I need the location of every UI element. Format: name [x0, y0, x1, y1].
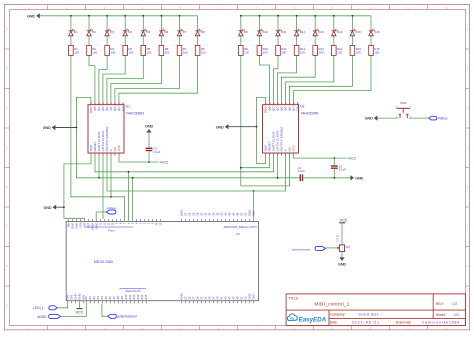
svg-text:OUTPUT ENABLE: OUTPUT ENABLE: [280, 126, 284, 151]
svg-text:VCC: VCC: [76, 311, 84, 315]
wire column D2: [88, 16, 90, 31]
junction G2: [76, 127, 78, 129]
wire fan D2 to U1: [89, 55, 95, 102]
resistor R1 100: [69, 45, 80, 55]
svg-text:0.1uF: 0.1uF: [153, 150, 160, 154]
wire bus row F (U1-U2): [107, 155, 286, 191]
LED D4: [123, 29, 132, 36]
wire row F drop to Arduino pin: [253, 191, 255, 219]
svg-text:100: 100: [281, 50, 286, 54]
svg-text:AGND: AGND: [37, 315, 47, 319]
wire LED(-) to Arduino: [57, 303, 67, 308]
svg-text:10K: 10K: [336, 234, 340, 242]
wire bus row D left part: [77, 177, 300, 179]
svg-text:6: 6: [111, 103, 112, 105]
wire row B U2 RESET to D9 vertical: [241, 155, 270, 167]
resistor R10 100: [257, 45, 268, 55]
svg-text:8: 8: [294, 103, 295, 105]
svg-text:5V0: 5V0: [252, 210, 256, 215]
svg-text:100: 100: [319, 50, 324, 54]
svg-text:Company:: Company:: [330, 313, 346, 317]
wire D1 column long run to Arduino: [71, 55, 125, 219]
resistor R15 100: [350, 45, 361, 55]
svg-text:D6: D6: [165, 30, 169, 34]
svg-text:100: 100: [337, 50, 342, 54]
LED D13: [313, 29, 324, 36]
svg-text:D9: D9: [244, 30, 248, 34]
svg-text:D13: D13: [318, 30, 324, 34]
switch SW1: [396, 101, 412, 118]
svg-text:QA: QA: [296, 107, 300, 111]
wire fan D5 to U1: [107, 55, 143, 102]
junction C2-VCC: [148, 161, 150, 163]
junction row F drop: [253, 190, 255, 192]
resistor R11 100: [276, 45, 287, 55]
wire U2 VCC to +VCC: [294, 155, 347, 158]
svg-text:100: 100: [244, 50, 249, 54]
junction rail-D2: [88, 15, 90, 17]
power VCC above R17: [339, 219, 348, 245]
wire column D8: [197, 16, 199, 31]
svg-text:potentiometer: potentiometer: [117, 315, 137, 319]
svg-text:100: 100: [165, 50, 170, 54]
LED D6: [159, 29, 168, 36]
junction bus drop: [132, 177, 134, 179]
resistor R7 100: [177, 45, 188, 55]
LED D5: [141, 29, 150, 36]
junction rail-D11: [277, 15, 279, 17]
ground G3 arrow: [43, 205, 56, 210]
svg-text:ARDUINO_MEGA COPY: ARDUINO_MEGA COPY: [223, 225, 257, 229]
svg-text:E: E: [467, 185, 469, 189]
netport LED(-): [33, 306, 57, 310]
junction G4: [256, 126, 258, 128]
mcu U3 ARDUINO_MEGA COPY: [66, 222, 258, 301]
svg-text:4: 4: [278, 103, 279, 105]
capacitor C3 0.1uF: [331, 158, 346, 178]
ground right of C1: [350, 175, 363, 180]
wire U1 LATCH drop to Arduino: [102, 155, 104, 219]
wire SW1 to Volbox port: [409, 117, 429, 119]
svg-text:D16: D16: [374, 30, 380, 34]
wire fan D14 to U2: [285, 55, 333, 102]
wire fan D6 to U1: [111, 55, 161, 102]
svg-text:VCC: VCC: [117, 144, 121, 151]
junction U2 pin4 row D: [277, 177, 279, 179]
LED D8: [195, 29, 204, 36]
junction rail-D13: [314, 15, 316, 17]
wire column D10: [258, 16, 260, 31]
svg-text:D15: D15: [356, 30, 362, 34]
svg-text:7: 7: [115, 103, 116, 105]
svg-text:H: H: [467, 304, 469, 308]
wire fan D13 to U2: [281, 55, 315, 102]
svg-text:100: 100: [110, 50, 115, 54]
svg-text:D3: D3: [110, 30, 114, 34]
Pwm group bracket: [86, 226, 134, 228]
wire column D12: [296, 16, 298, 31]
ground G4: [228, 126, 256, 128]
resistor R12 100: [294, 45, 305, 55]
junction rail-D3: [106, 15, 108, 17]
svg-text:H: H: [6, 304, 8, 308]
LED D15: [350, 29, 361, 36]
junction rail-D14: [333, 15, 335, 17]
junction rail-D12: [296, 15, 298, 17]
ground G4 arrow: [216, 124, 229, 129]
svg-text:1.0: 1.0: [452, 302, 457, 306]
LED D1: [69, 29, 78, 36]
svg-text:100: 100: [263, 50, 268, 54]
wire GND rail left bank: [40, 15, 198, 17]
wire column D14: [333, 16, 335, 31]
wire column D7: [179, 16, 181, 31]
ground below R17: [338, 257, 346, 266]
svg-text:74HC595N: 74HC595N: [126, 111, 145, 115]
svg-text:GND: GND: [43, 205, 51, 210]
svg-text:ANALOG IN: ANALOG IN: [125, 289, 140, 293]
wire U1 GND pin to left vertical: [77, 97, 91, 177]
shift register U1 74HC595N: [88, 102, 144, 155]
wire U1 pin3 drop to row D: [98, 155, 100, 177]
svg-text:D14: D14: [337, 30, 343, 34]
resistor R4 100: [123, 45, 134, 55]
Arduino top pin labels: [67, 210, 256, 230]
wire GND to SW1: [377, 117, 398, 119]
svg-text:100: 100: [129, 50, 134, 54]
svg-text:Pwm: Pwm: [108, 228, 115, 232]
junction row B on D9 vertical: [240, 167, 242, 169]
svg-text:2: 2: [270, 103, 271, 105]
EasyEDA logo: [287, 314, 326, 324]
svg-text:Drawn By:: Drawn By:: [396, 320, 412, 324]
svg-text:GND: GND: [145, 123, 153, 128]
svg-text:2021-06-21: 2021-06-21: [352, 320, 380, 324]
capacitor C2 0.1uF: [146, 133, 161, 162]
shift register U2 74HC595N: [263, 102, 319, 155]
LED D2: [87, 29, 96, 36]
junction rail-D1: [70, 15, 72, 17]
svg-text:GND: GND: [365, 116, 373, 121]
resistor R8 100: [195, 45, 206, 55]
svg-text:Solid Box: Solid Box: [359, 313, 380, 317]
wire column D11: [277, 16, 279, 31]
power VCC under Arduino: [76, 303, 84, 314]
ANALOG IN bracket: [120, 287, 147, 289]
wire column D3: [106, 16, 108, 31]
svg-text:GND: GND: [355, 175, 363, 180]
resistor R2 100: [87, 45, 98, 55]
resistor R3 100: [105, 45, 116, 55]
svg-text:GND: GND: [43, 125, 51, 130]
wire column D5: [142, 16, 144, 31]
junction rail-D5: [142, 15, 144, 17]
wire AGND to Arduino: [61, 303, 87, 316]
svg-text:3: 3: [99, 103, 100, 105]
svg-text:1/1: 1/1: [454, 313, 459, 317]
netport Volbox (Arduino): [106, 206, 116, 214]
wire U2 GND pin loop: [257, 97, 266, 163]
wire fan D7 to U1: [115, 55, 180, 102]
svg-text:0.1uF: 0.1uF: [339, 168, 346, 172]
wire bus row C (U1-U2): [95, 155, 274, 171]
svg-text:U1: U1: [126, 104, 130, 108]
svg-text:VCC: VCC: [340, 219, 348, 223]
LED D7: [177, 29, 186, 36]
junction rail-D9: [240, 15, 242, 17]
svg-text:A15: A15: [144, 294, 148, 299]
resistor R9 100: [239, 45, 250, 55]
svg-text:9: 9: [298, 103, 299, 105]
svg-text:1: 1: [91, 103, 92, 105]
svg-text:3: 3: [274, 103, 275, 105]
wire U2 pin4 drop to row D: [277, 155, 279, 177]
svg-text:100: 100: [356, 50, 361, 54]
potentiometer R17 10K: [336, 234, 351, 257]
svg-text:liamorourke1984: liamorourke1984: [422, 320, 460, 324]
svg-text:G: G: [6, 264, 8, 268]
svg-text:E: E: [6, 185, 8, 189]
svg-text:D8: D8: [201, 30, 205, 34]
svg-text:6: 6: [286, 103, 287, 105]
wire column D13: [314, 16, 316, 31]
svg-text:D10: D10: [263, 30, 269, 34]
svg-text:Sheet:: Sheet:: [436, 313, 446, 317]
wire fan D12 to U2: [277, 55, 296, 102]
wire fan D4 to U1: [103, 55, 125, 102]
svg-text:1: 1: [266, 103, 267, 105]
junction rail-D4: [124, 15, 126, 17]
junction rail-D15: [352, 15, 354, 17]
wire U1 SQH to Arduino pin: [64, 155, 91, 219]
svg-text:R17: R17: [346, 245, 351, 249]
svg-text:GND: GND: [338, 262, 346, 267]
ground above C2: [145, 123, 153, 132]
LED D3: [105, 29, 114, 36]
svg-text:7: 7: [290, 103, 291, 105]
svg-text:2: 2: [95, 103, 96, 105]
svg-text:D: D: [6, 146, 8, 150]
svg-text:LED(-): LED(-): [33, 306, 43, 310]
LED D14: [332, 29, 343, 36]
resistor R5 100: [141, 45, 152, 55]
title block texts: [289, 296, 446, 324]
wire column D15: [351, 16, 353, 31]
junction rail-D10: [259, 15, 261, 17]
junction C3-VCC: [333, 157, 335, 159]
svg-text:A: A: [467, 27, 469, 31]
wire fan D3 to U1: [99, 55, 107, 102]
svg-text:100: 100: [92, 50, 97, 54]
junction U1 pinA on L-row: [110, 196, 112, 198]
svg-text:QA: QA: [121, 107, 125, 111]
wire drop to Arduino pin: [132, 178, 134, 219]
svg-text:4: 4: [103, 103, 104, 105]
svg-text:D7: D7: [183, 30, 187, 34]
junction G3: [63, 206, 65, 208]
ground G6 at SW1: [365, 116, 378, 121]
ground G1 top-left: [27, 13, 40, 18]
svg-text:SW1: SW1: [400, 101, 407, 105]
svg-text:GND: GND: [27, 13, 35, 18]
Arduino bottom pin labels: [66, 293, 256, 299]
svg-text:A: A: [6, 27, 8, 31]
capacitor C1 0.1uF: [298, 166, 305, 181]
svg-text:GND: GND: [216, 124, 224, 129]
svg-text:C: C: [6, 106, 8, 110]
wire fan D16 to U2: [293, 55, 371, 102]
svg-text:100: 100: [183, 50, 188, 54]
wire column D16: [370, 16, 372, 31]
ground G2: [55, 127, 76, 129]
Arduino bottom pins: [68, 301, 254, 304]
ground G3: [56, 206, 64, 208]
svg-text:Volbox: Volbox: [438, 117, 448, 121]
svg-text:potentiometer: potentiometer: [292, 247, 310, 251]
Arduino top pins: [69, 219, 254, 222]
resistor R16 100: [369, 45, 380, 55]
svg-text:15: 15: [159, 222, 163, 226]
svg-text:D: D: [467, 146, 469, 150]
svg-text:OUTPUT ENABLE: OUTPUT ENABLE: [105, 126, 109, 151]
svg-text:U3: U3: [236, 232, 240, 236]
svg-text:G: G: [466, 264, 468, 268]
svg-text:MEGA 2560: MEGA 2560: [94, 260, 113, 264]
svg-text:100: 100: [201, 50, 206, 54]
LED D10: [257, 29, 268, 36]
svg-text:REV:: REV:: [436, 302, 444, 306]
wire GND rail right bank: [241, 15, 371, 17]
resistor R6 100: [159, 45, 170, 55]
svg-text:5: 5: [282, 103, 283, 105]
wire U1 VCC to +VCC: [119, 155, 159, 162]
wire U1 pin A drop to L-row: [110, 155, 112, 196]
wire column D6: [160, 16, 162, 31]
title block: [286, 294, 465, 326]
wire potentiometer port to R17 wiper: [325, 247, 338, 249]
svg-text:100: 100: [147, 50, 152, 54]
wire fan D15 to U2: [289, 55, 352, 102]
LED D11: [276, 29, 287, 36]
svg-text:B: B: [467, 67, 469, 71]
LED D9: [239, 29, 248, 36]
svg-text:D5: D5: [147, 30, 151, 34]
svg-text:B: B: [6, 67, 8, 71]
junction rail-D6: [161, 15, 163, 17]
junction bus drop: [128, 171, 130, 173]
wire column D9: [240, 16, 242, 31]
svg-text:100: 100: [74, 50, 79, 54]
svg-text:5: 5: [107, 103, 108, 105]
wire D9 column long run / row E: [241, 55, 290, 186]
netport potentiometer (Arduino): [108, 314, 138, 318]
svg-text:D4: D4: [128, 30, 132, 34]
resistor R14 100: [332, 45, 343, 55]
svg-text:Volbox: Volbox: [107, 206, 117, 210]
junction U1 pin3 row D: [98, 177, 100, 179]
svg-text:D12: D12: [300, 30, 306, 34]
ground G2 arrow: [43, 125, 56, 130]
wire column D1: [70, 16, 72, 31]
junction C3-GND row: [333, 177, 335, 179]
svg-text:9: 9: [123, 103, 124, 105]
svg-text:100: 100: [374, 50, 379, 54]
wire column D4: [124, 16, 126, 31]
junction rail-D7: [179, 15, 181, 17]
wire potentiometer port to Arduino: [102, 303, 108, 316]
wire Volbox to Arduino pin: [96, 212, 106, 219]
svg-text:TITLE:: TITLE:: [289, 296, 299, 300]
svg-text:Date:: Date:: [330, 320, 338, 324]
svg-text:D1: D1: [74, 30, 78, 34]
svg-text:U2: U2: [300, 104, 304, 108]
LED D12: [294, 29, 305, 36]
svg-text:8: 8: [119, 103, 120, 105]
svg-text:D2: D2: [92, 30, 96, 34]
svg-text:VCC: VCC: [292, 144, 296, 151]
wire fan D11 to U2: [273, 55, 278, 102]
netport potentiometer (R17): [292, 246, 325, 251]
netport Volbox (right): [429, 116, 448, 120]
wire C1 to GND: [303, 177, 350, 179]
svg-text:C: C: [467, 106, 469, 110]
wire fan D8 to U1: [119, 55, 198, 102]
svg-text:5V0: 5V0: [251, 294, 255, 299]
netport AGND: [37, 314, 60, 318]
svg-text:100: 100: [300, 50, 305, 54]
svg-text:MIDI_control_1: MIDI_control_1: [314, 301, 349, 306]
svg-text:+VCC: +VCC: [159, 160, 169, 164]
resistor R13 100: [313, 45, 324, 55]
svg-text:74HC595N: 74HC595N: [300, 111, 319, 115]
LED D16: [369, 29, 380, 36]
svg-text:D11: D11: [281, 30, 286, 34]
svg-text:0.1uF: 0.1uF: [298, 169, 305, 173]
wire drop to Arduino pin: [128, 172, 130, 219]
svg-text:+VCC: +VCC: [347, 156, 357, 160]
wire fan D10 to U2: [259, 55, 269, 102]
svg-text:EasyEDA: EasyEDA: [299, 317, 327, 324]
